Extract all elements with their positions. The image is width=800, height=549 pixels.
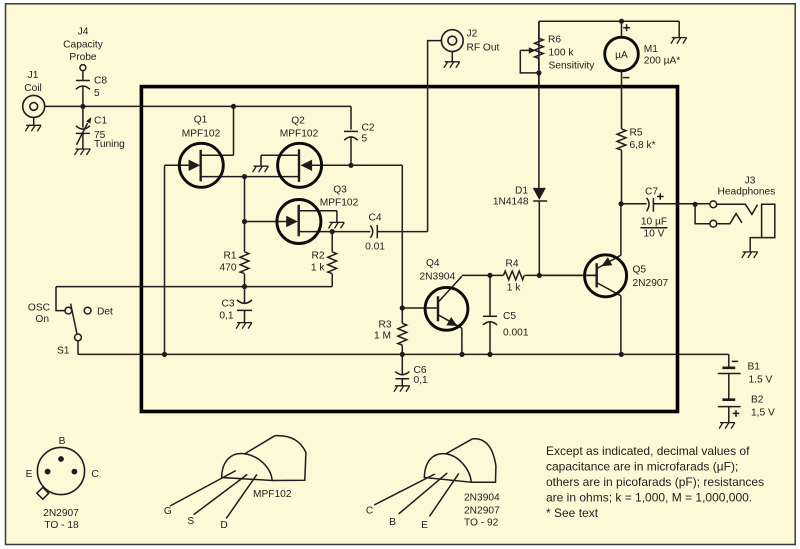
svg-text:2N2907: 2N2907 xyxy=(633,278,669,289)
svg-text:2N2907: 2N2907 xyxy=(464,506,500,517)
svg-text:Probe: Probe xyxy=(69,52,97,63)
svg-text:R6: R6 xyxy=(548,35,561,46)
svg-text:C7: C7 xyxy=(645,187,658,198)
svg-text:J4: J4 xyxy=(78,27,89,38)
svg-text:Q5: Q5 xyxy=(633,265,647,276)
svg-text:1 k: 1 k xyxy=(507,283,521,294)
svg-text:M1: M1 xyxy=(644,44,658,55)
svg-text:1.5 V: 1.5 V xyxy=(749,375,773,386)
svg-text:Headphones: Headphones xyxy=(718,187,776,198)
svg-text:MPF102: MPF102 xyxy=(253,489,292,500)
svg-text:µA: µA xyxy=(615,50,628,61)
svg-text:Det: Det xyxy=(97,307,113,318)
svg-text:D: D xyxy=(220,520,227,531)
svg-text:J2: J2 xyxy=(467,29,478,40)
svg-text:C5: C5 xyxy=(503,311,516,322)
svg-text:C4: C4 xyxy=(368,213,381,224)
svg-text:D1: D1 xyxy=(515,186,528,197)
svg-text:C8: C8 xyxy=(94,76,107,87)
svg-text:C3: C3 xyxy=(221,299,234,310)
svg-text:* See text: * See text xyxy=(546,506,599,520)
svg-text:R2: R2 xyxy=(311,251,324,262)
svg-text:1N4148: 1N4148 xyxy=(493,197,529,208)
svg-text:1,5 V: 1,5 V xyxy=(751,408,775,419)
svg-text:S: S xyxy=(187,516,194,527)
svg-text:R5: R5 xyxy=(630,128,643,139)
svg-text:Q1: Q1 xyxy=(194,115,208,126)
svg-text:0,1: 0,1 xyxy=(219,311,233,322)
svg-text:S1: S1 xyxy=(57,346,70,357)
svg-text:C2: C2 xyxy=(362,123,375,134)
svg-text:1 k: 1 k xyxy=(311,263,325,274)
svg-text:2N2907: 2N2907 xyxy=(43,508,79,519)
svg-text:B: B xyxy=(389,517,396,528)
svg-text:0,1: 0,1 xyxy=(414,375,428,386)
svg-text:200 µA*: 200 µA* xyxy=(644,56,680,67)
svg-text:RF Out: RF Out xyxy=(467,43,500,54)
svg-text:Q4: Q4 xyxy=(426,258,440,269)
svg-text:5: 5 xyxy=(94,88,100,99)
svg-text:10 µF: 10 µF xyxy=(641,217,667,228)
svg-text:2N3904: 2N3904 xyxy=(420,272,456,283)
svg-text:Q2: Q2 xyxy=(291,116,305,127)
svg-text:100 k: 100 k xyxy=(549,48,575,59)
svg-text:B2: B2 xyxy=(751,395,764,406)
svg-text:Coil: Coil xyxy=(24,83,42,94)
svg-text:6,8 k*: 6,8 k* xyxy=(630,140,656,151)
svg-text:Capacity: Capacity xyxy=(63,40,104,51)
svg-text:0.01: 0.01 xyxy=(365,242,385,253)
svg-text:TO - 92: TO - 92 xyxy=(464,518,499,529)
svg-text:C: C xyxy=(91,469,98,480)
svg-text:MPF102: MPF102 xyxy=(320,198,359,209)
svg-text:E: E xyxy=(421,520,428,531)
svg-text:On: On xyxy=(35,314,49,325)
svg-text:Sensitivity: Sensitivity xyxy=(549,61,596,72)
svg-text:J1: J1 xyxy=(28,70,39,81)
svg-text:J3: J3 xyxy=(745,176,756,187)
svg-text:G: G xyxy=(164,506,172,517)
svg-text:Q3: Q3 xyxy=(333,185,347,196)
svg-text:MPF102: MPF102 xyxy=(182,129,221,140)
svg-text:C1: C1 xyxy=(94,116,107,127)
svg-text:R1: R1 xyxy=(223,251,236,262)
svg-text:470: 470 xyxy=(220,263,237,274)
svg-text:B1: B1 xyxy=(748,362,761,373)
svg-text:10 V: 10 V xyxy=(644,229,665,240)
svg-text:are in ohms; k = 1,000, M = 1,: are in ohms; k = 1,000, M = 1,000,000. xyxy=(546,491,752,505)
svg-text:2N3904: 2N3904 xyxy=(464,493,500,504)
svg-text:1 M: 1 M xyxy=(374,331,391,342)
svg-text:R3: R3 xyxy=(378,320,391,331)
svg-text:OSC: OSC xyxy=(28,303,50,314)
svg-text:E: E xyxy=(26,469,33,480)
svg-text:capacitance are in microfarads: capacitance are in microfarads (µF); xyxy=(546,460,738,474)
svg-text:Except as indicated, decimal v: Except as indicated, decimal values of xyxy=(546,444,750,458)
svg-text:Tuning: Tuning xyxy=(94,139,125,150)
svg-text:TO - 18: TO - 18 xyxy=(44,520,79,531)
svg-text:B: B xyxy=(59,436,66,447)
svg-text:5: 5 xyxy=(362,134,368,145)
svg-text:C: C xyxy=(366,506,373,517)
svg-text:R4: R4 xyxy=(505,259,518,270)
svg-text:0.001: 0.001 xyxy=(503,328,529,339)
svg-text:others are in picofarads (pF);: others are in picofarads (pF); resistanc… xyxy=(546,475,764,489)
svg-text:MPF102: MPF102 xyxy=(280,129,319,140)
